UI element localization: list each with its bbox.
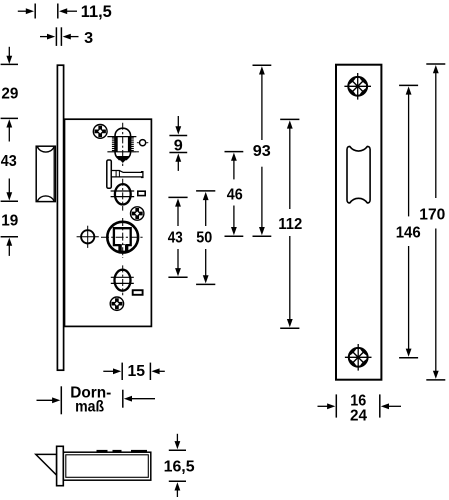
svg-text:170: 170 (419, 207, 445, 224)
svg-text:16,5: 16,5 (164, 459, 195, 476)
svg-text:15: 15 (128, 363, 146, 380)
svg-text:50: 50 (196, 230, 212, 247)
svg-text:46: 46 (227, 187, 243, 204)
svg-text:19: 19 (1, 212, 18, 229)
svg-text:93: 93 (253, 143, 271, 160)
svg-text:43: 43 (168, 230, 183, 247)
svg-text:maß: maß (75, 399, 104, 416)
svg-text:11,5: 11,5 (81, 2, 112, 21)
svg-text:146: 146 (396, 225, 421, 242)
svg-text:3: 3 (84, 30, 93, 47)
svg-text:112: 112 (278, 216, 302, 233)
svg-text:43: 43 (1, 153, 17, 170)
svg-text:29: 29 (1, 85, 18, 102)
svg-text:24: 24 (350, 407, 367, 424)
